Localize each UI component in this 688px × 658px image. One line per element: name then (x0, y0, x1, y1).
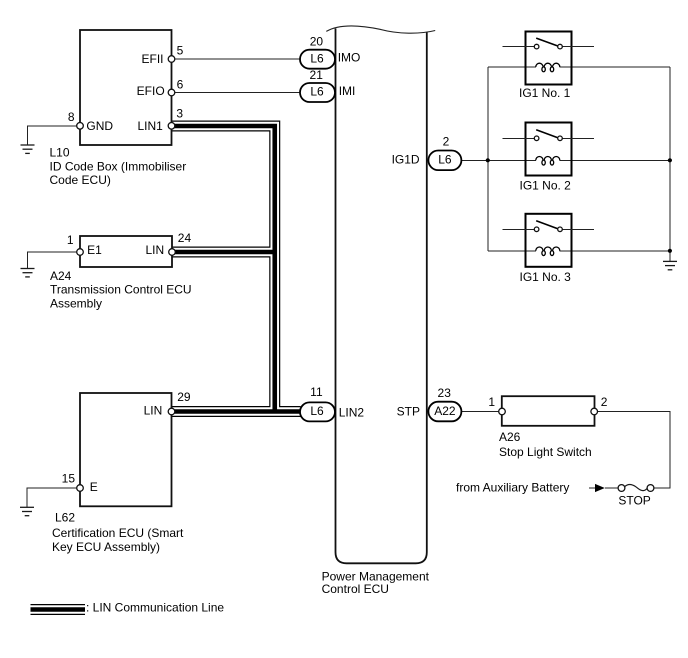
svg-text:EFII: EFII (141, 52, 163, 66)
junction dot right bus row2 (668, 158, 672, 162)
node: relay left bus (487, 67, 489, 251)
svg-text:2: 2 (443, 134, 450, 148)
pin 1 E1 (77, 249, 84, 256)
connector L6 pin 11 LIN2 (300, 402, 335, 421)
svg-text:EFIO: EFIO (137, 84, 165, 98)
junction dot right bus row3 (668, 249, 672, 253)
relay K2: IG1 No. 2 (503, 123, 595, 193)
ECU U2: A24 Transmission Control ECU (80, 236, 172, 267)
svg-text:IMI: IMI (339, 84, 356, 98)
pin 1 (499, 408, 506, 415)
svg-text:L62: L62 (55, 511, 75, 525)
node: relay right bus (669, 67, 671, 261)
svg-text:IMO: IMO (338, 50, 361, 64)
wire coil row 2 (488, 159, 536, 161)
ground G1 (L10) (21, 145, 35, 153)
svg-text:E1: E1 (87, 243, 102, 257)
svg-text:15: 15 (62, 471, 76, 485)
svg-text:Transmission Control ECU: Transmission Control ECU (50, 283, 192, 297)
ECU U1: L10 ID Code Box (80, 30, 172, 145)
connector L6 pin 20 IMO (300, 50, 335, 69)
ground G2 (A24) (21, 269, 35, 277)
svg-text:5: 5 (177, 44, 184, 58)
wire STP to stop light switch (462, 411, 502, 413)
svg-text:: LIN Communication Line: : LIN Communication Line (86, 601, 224, 615)
pin 8 GND (77, 123, 84, 130)
relay K1: IG1 No. 1 (503, 32, 595, 101)
svg-text:23: 23 (438, 386, 452, 400)
wire coil row 1 (488, 66, 536, 68)
svg-text:A22: A22 (434, 404, 456, 418)
pin 2 (591, 408, 598, 415)
svg-text:Control ECU: Control ECU (322, 582, 389, 596)
svg-text:24: 24 (178, 231, 192, 245)
junction dot IG1D bus (486, 158, 490, 162)
svg-text:21: 21 (310, 68, 324, 82)
pin 29 LIN (168, 408, 175, 415)
svg-text:LIN: LIN (144, 404, 163, 418)
wire into arrow (589, 487, 595, 489)
ECU U3: L62 Certification ECU (80, 393, 172, 506)
wire IG1D to relay bus (462, 159, 536, 161)
svg-text:A24: A24 (50, 269, 72, 283)
pin 24 LIN (169, 249, 176, 256)
svg-text:L6: L6 (438, 153, 452, 167)
svg-text:IG1 No. 2: IG1 No. 2 (520, 179, 572, 193)
ground G3 (L62) (20, 507, 34, 515)
svg-text:8: 8 (68, 110, 75, 124)
svg-text:Certification ECU (Smart: Certification ECU (Smart (52, 526, 184, 540)
svg-text:E: E (90, 480, 98, 494)
svg-text:IG1 No. 1: IG1 No. 1 (519, 86, 571, 100)
svg-text:6: 6 (177, 77, 184, 91)
svg-text:Key ECU Assembly): Key ECU Assembly) (52, 540, 160, 554)
svg-text:A26: A26 (499, 430, 521, 444)
connector L6 pin 2 IG1D (428, 151, 461, 171)
svg-text:L10: L10 (50, 145, 70, 159)
svg-text:LIN: LIN (146, 243, 165, 257)
relay K3: IG1 No. 3 (503, 214, 595, 284)
svg-text:3: 3 (176, 107, 183, 121)
pin 3 LIN1 (168, 123, 175, 130)
ground G4 (relay bus) (663, 261, 677, 269)
pin 5 EFII (168, 56, 175, 63)
fuse STOP (618, 485, 625, 492)
connector L6 pin 21 IMI (300, 83, 335, 102)
wire GND to ground (28, 126, 81, 145)
legend: LIN communication line symbol (31, 604, 86, 615)
pin 6 EFIO (168, 89, 175, 96)
arrow (595, 484, 605, 492)
svg-text:IG1 No. 3: IG1 No. 3 (520, 270, 572, 284)
svg-text:Stop Light Switch: Stop Light Switch (499, 445, 592, 459)
wavy break line at top (326, 26, 435, 33)
wire coil row 3 (488, 250, 536, 252)
svg-text:1: 1 (488, 395, 495, 409)
wire EFII to IMO (172, 58, 301, 60)
svg-text:Code ECU): Code ECU) (50, 173, 111, 187)
svg-text:ID Code Box (Immobiliser: ID Code Box (Immobiliser (50, 159, 187, 173)
svg-text:STP: STP (397, 404, 420, 418)
svg-text:LIN2: LIN2 (339, 405, 365, 419)
svg-text:20: 20 (310, 34, 324, 48)
svg-text:1: 1 (67, 233, 74, 247)
svg-text:L6: L6 (310, 85, 324, 99)
wire E to ground (27, 488, 80, 507)
ECU U4: Power Management Control ECU outline (336, 29, 427, 564)
pin 15 E (77, 485, 84, 492)
svg-text:11: 11 (310, 385, 323, 399)
svg-text:L6: L6 (310, 404, 324, 418)
svg-text:LIN1: LIN1 (137, 119, 163, 133)
svg-text:2: 2 (601, 395, 608, 409)
wire pin2 to fuse (595, 412, 671, 489)
wire E1 to ground (28, 252, 81, 269)
LIN communication line network (triple line) (172, 126, 301, 412)
svg-text:from Auxiliary Battery: from Auxiliary Battery (456, 480, 569, 494)
svg-text:29: 29 (177, 390, 191, 404)
connector A22 pin 23 STP (428, 402, 461, 422)
svg-text:IG1D: IG1D (392, 153, 420, 167)
svg-text:Assembly: Assembly (50, 297, 102, 311)
switch S1: A26 Stop Light Switch (502, 396, 595, 426)
svg-text:GND: GND (86, 119, 113, 133)
svg-text:STOP: STOP (618, 493, 650, 507)
svg-text:L6: L6 (310, 51, 324, 65)
wire EFIO to IMI (172, 92, 301, 94)
